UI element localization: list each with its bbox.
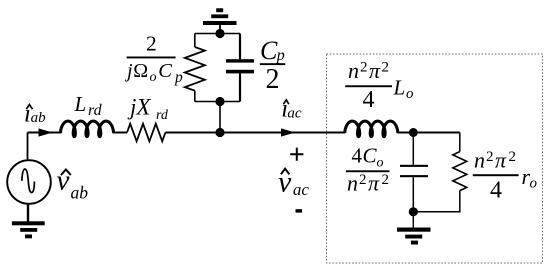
svg-text:p: p xyxy=(276,47,285,64)
resistor 2/jOmegaCp xyxy=(185,47,205,91)
svg-text:C: C xyxy=(260,36,278,65)
svg-text:L: L xyxy=(393,76,406,100)
svg-text:p: p xyxy=(174,69,183,86)
svg-text:C: C xyxy=(363,144,378,168)
wire junction to tank bottom xyxy=(219,102,221,133)
label i_ac xyxy=(281,96,302,123)
label v_ac xyxy=(278,166,309,200)
wire tank bottom rail xyxy=(195,101,240,103)
wire resistor branch xyxy=(413,133,460,212)
svg-text:n: n xyxy=(348,58,359,83)
resistor jX_rd xyxy=(127,124,165,142)
svg-text:ac: ac xyxy=(293,180,310,199)
wire capacitor branch bottom xyxy=(412,177,414,212)
capacitor Cp/2 xyxy=(226,59,254,73)
svg-text:rd: rd xyxy=(88,102,103,119)
svg-text:n: n xyxy=(474,148,485,173)
label Cp/2 fraction xyxy=(260,36,286,95)
node tank top xyxy=(215,29,224,38)
svg-text:2: 2 xyxy=(382,172,390,188)
label L_rd xyxy=(74,92,103,119)
wire node to ground xyxy=(412,212,414,228)
svg-text:2: 2 xyxy=(360,60,368,76)
svg-text:o: o xyxy=(150,70,157,85)
svg-text:2: 2 xyxy=(146,32,157,56)
svg-text:ac: ac xyxy=(287,106,302,122)
wire main horizontal line xyxy=(28,132,460,134)
svg-text:π: π xyxy=(369,58,381,83)
svg-text:4: 4 xyxy=(490,178,502,204)
label jX_rd xyxy=(127,95,169,123)
label 4Co/n2pi2 fraction xyxy=(346,144,390,196)
svg-text:L: L xyxy=(74,92,87,116)
ground (inverted) at top xyxy=(203,8,237,25)
node tank bottom xyxy=(215,97,224,106)
svg-text:rd: rd xyxy=(156,108,169,123)
arrow on wire (i_ac direction) xyxy=(281,128,295,136)
svg-text:2: 2 xyxy=(486,149,494,165)
svg-text:4: 4 xyxy=(352,144,363,168)
svg-text:π: π xyxy=(495,148,507,173)
inductor L_rd xyxy=(61,121,114,137)
label n2pi2/4 Lo fraction xyxy=(345,58,414,113)
wire vertical from main line to source xyxy=(27,133,29,161)
svg-text:2: 2 xyxy=(382,60,390,76)
wire source to ground xyxy=(27,204,29,222)
wire tank left leg xyxy=(194,34,196,102)
label 2/jOmegaCp fraction xyxy=(124,32,183,86)
svg-text:2: 2 xyxy=(266,64,280,95)
svg-text:ab: ab xyxy=(31,110,46,126)
label + polarity xyxy=(290,148,303,161)
label v_ab xyxy=(57,165,89,203)
dashed subcircuit box xyxy=(327,54,543,263)
inductor n2pi2/4 Lo xyxy=(345,121,398,137)
node junction on main line xyxy=(215,128,224,137)
label n2pi2/4 ro fraction xyxy=(473,148,538,204)
svg-text:2: 2 xyxy=(509,149,517,165)
svg-text:Ω: Ω xyxy=(133,60,148,82)
svg-text:o: o xyxy=(377,156,384,171)
ground below source xyxy=(12,221,45,238)
svg-text:ab: ab xyxy=(71,183,89,203)
node after inductor xyxy=(409,128,418,137)
wire top node to inverted ground xyxy=(219,25,221,34)
wire tank top rail xyxy=(195,33,240,35)
arrow on wire (i_ab direction) xyxy=(39,128,53,136)
svg-text:n: n xyxy=(347,171,358,196)
resistor n2pi2/4 ro xyxy=(453,152,467,191)
svg-text:π: π xyxy=(368,171,380,196)
label - polarity xyxy=(296,209,303,212)
svg-text:jX: jX xyxy=(127,95,151,120)
label i_ab xyxy=(24,100,46,127)
svg-text:o: o xyxy=(406,86,414,102)
svg-text:2: 2 xyxy=(359,172,367,188)
wire tank right leg xyxy=(239,34,241,102)
svg-text:C: C xyxy=(158,60,172,82)
svg-text:o: o xyxy=(530,176,538,192)
svg-text:4: 4 xyxy=(363,87,375,113)
source V1 ac xyxy=(7,160,51,204)
capacitor 4Co/n2pi2 xyxy=(400,165,428,177)
ground in box xyxy=(397,228,431,245)
node bottom xyxy=(409,207,418,216)
svg-text:v: v xyxy=(57,165,70,197)
wire capacitor branch top xyxy=(412,133,414,165)
